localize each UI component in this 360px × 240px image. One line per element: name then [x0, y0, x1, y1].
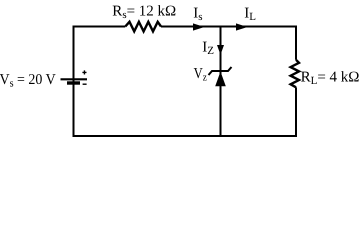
- svg-text:Vs = 20 V: Vs = 20 V: [0, 72, 56, 90]
- svg-text:Rs= 12 kΩ: Rs= 12 kΩ: [112, 4, 176, 22]
- svg-text:RL= 4 kΩ: RL= 4 kΩ: [301, 69, 360, 87]
